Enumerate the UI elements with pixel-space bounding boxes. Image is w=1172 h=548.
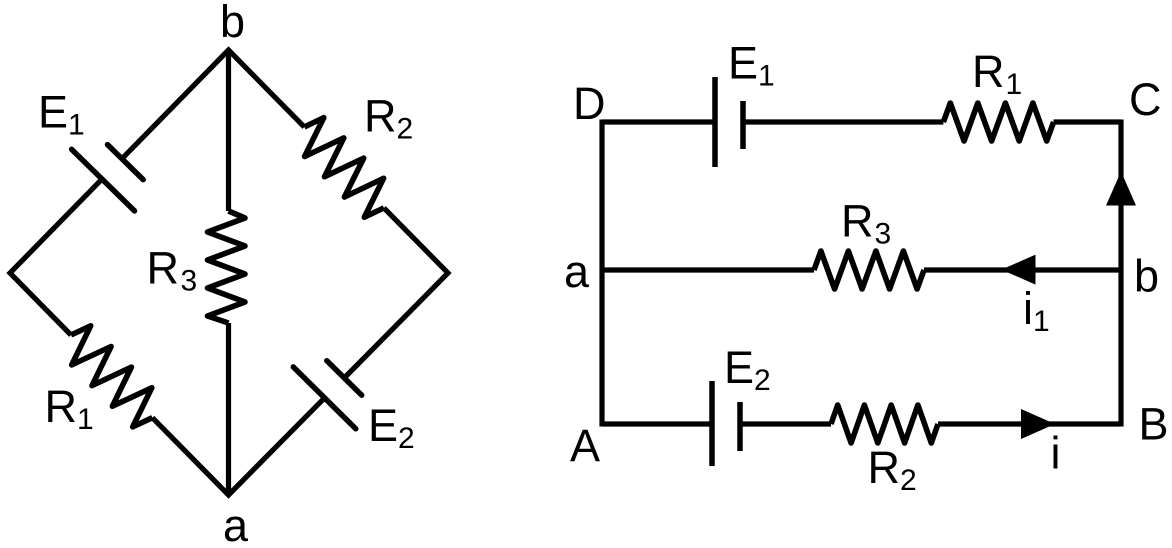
wire R2 via right corner to E2 short plate bbox=[344, 208, 448, 378]
wire a to R3 bbox=[602, 267, 814, 272]
wire E2 short plate to R2 bbox=[740, 421, 831, 426]
current arrow i right bbox=[1021, 409, 1055, 439]
svg-text:A: A bbox=[570, 420, 600, 471]
resistor R1 bbox=[71, 326, 152, 427]
wire A to E2 long plate bbox=[602, 421, 712, 426]
svg-text:i1: i1 bbox=[1023, 283, 1050, 338]
current arrow up on right branch bbox=[1106, 172, 1136, 206]
svg-text:a: a bbox=[564, 246, 590, 297]
wire E1 short plate to R1 bbox=[743, 119, 943, 124]
wire R2 to B bbox=[938, 421, 1121, 426]
svg-text:i: i bbox=[1051, 428, 1061, 479]
resistor R2 bbox=[304, 118, 384, 218]
svg-text:E2: E2 bbox=[368, 400, 415, 455]
svg-text:E2: E2 bbox=[724, 342, 771, 397]
wire R3 to node a bbox=[226, 323, 231, 495]
left vertical wire D to A bbox=[599, 120, 604, 427]
svg-text:b: b bbox=[220, 0, 245, 47]
svg-text:a: a bbox=[223, 500, 249, 548]
wire R3 to b junction bbox=[924, 267, 1121, 272]
svg-text:R2: R2 bbox=[364, 91, 413, 146]
wire E1 short plate to node b to R2 bbox=[122, 50, 304, 159]
battery E1 bbox=[72, 145, 144, 211]
resistor R3 bbox=[814, 251, 924, 289]
wire b to R3 bbox=[226, 50, 231, 211]
resistor R3 bbox=[208, 211, 246, 323]
svg-text:E1: E1 bbox=[728, 38, 775, 93]
battery E2 bbox=[712, 381, 740, 466]
svg-text:R3: R3 bbox=[841, 196, 891, 251]
resistor R1 bbox=[943, 103, 1053, 141]
wire D to E1 long plate bbox=[602, 119, 715, 124]
right vertical wire C to B bbox=[1118, 120, 1123, 427]
wire E1 long plate via left corner to R1 bbox=[10, 179, 102, 335]
svg-text:R2: R2 bbox=[868, 442, 917, 497]
wire R1 to C bbox=[1054, 119, 1121, 124]
svg-text:R1: R1 bbox=[45, 381, 94, 436]
svg-text:B: B bbox=[1139, 399, 1169, 450]
battery E2 bbox=[293, 361, 361, 429]
battery E1 bbox=[715, 77, 743, 167]
wire R1 to node a to E2 long plate bbox=[152, 398, 324, 495]
svg-text:E1: E1 bbox=[38, 87, 85, 142]
svg-text:R3: R3 bbox=[147, 243, 198, 298]
svg-text:R1: R1 bbox=[972, 46, 1022, 101]
svg-text:C: C bbox=[1129, 74, 1162, 125]
resistor R2 bbox=[831, 405, 938, 443]
svg-text:b: b bbox=[1134, 251, 1159, 302]
current arrow i1 left bbox=[1002, 255, 1036, 285]
